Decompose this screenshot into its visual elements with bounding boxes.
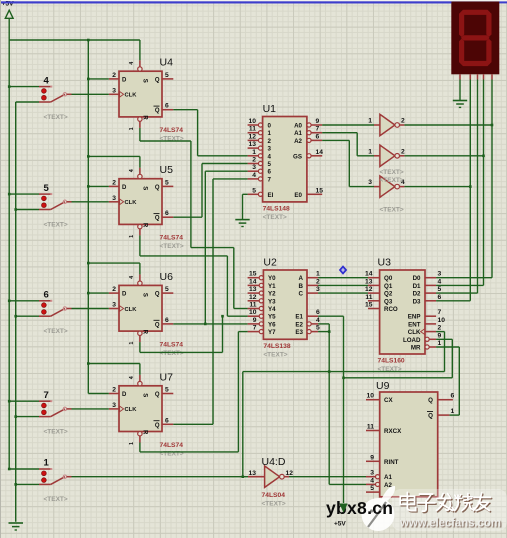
svg-text:A1: A1 — [384, 474, 392, 481]
svg-text:6: 6 — [316, 309, 320, 316]
switch 7 lever — [51, 409, 65, 417]
U7 pin Q-bar stub (pin 6) — [162, 423, 173, 425]
svg-text:5: 5 — [370, 485, 374, 492]
U9 CX pin 10 — [366, 399, 380, 401]
switch 5 bottom contact wire — [16, 209, 39, 211]
svg-text:14: 14 — [249, 278, 257, 285]
switch 1 common wire to output — [67, 476, 72, 478]
7-segment display body — [451, 2, 499, 75]
svg-text:<TEXT>: <TEXT> — [380, 207, 404, 214]
svg-text:U4:D: U4:D — [262, 456, 286, 468]
svg-text:<TEXT>: <TEXT> — [44, 221, 68, 228]
U7 set pin bubble and stub (pin 4) — [138, 381, 142, 385]
svg-text:6: 6 — [165, 103, 169, 110]
U2 E2 pin 4 — [307, 322, 311, 326]
svg-text:74LS160: 74LS160 — [378, 358, 405, 365]
wire U4 S to +5V rail — [139, 40, 141, 60]
U3 ENT pin 10 — [425, 323, 436, 325]
svg-text:7: 7 — [44, 390, 49, 401]
svg-text:U7: U7 — [160, 371, 174, 383]
svg-text:Y5: Y5 — [268, 314, 276, 321]
power symbol +5V bottom arrow — [340, 504, 347, 512]
svg-text:5: 5 — [44, 183, 50, 194]
svg-text:6: 6 — [165, 210, 169, 217]
U9 A1 pin 3 — [376, 475, 380, 479]
svg-text:11: 11 — [365, 294, 372, 301]
svg-text:E2: E2 — [295, 321, 303, 328]
switch 1 bottom contact wire — [16, 483, 39, 485]
switch 1 lever — [51, 477, 65, 485]
svg-text:10: 10 — [249, 118, 257, 125]
svg-text:U3: U3 — [378, 257, 392, 269]
svg-text:1: 1 — [129, 442, 135, 445]
svg-text:1: 1 — [438, 340, 442, 347]
svg-text:CLK: CLK — [125, 200, 138, 206]
svg-text:D0: D0 — [413, 275, 421, 282]
svg-text:R: R — [142, 430, 148, 435]
svg-text:R: R — [142, 223, 148, 228]
wire U1 A1 to inverter2 — [322, 132, 357, 134]
svg-text:5: 5 — [438, 286, 442, 293]
svg-text:6: 6 — [44, 290, 49, 301]
svg-text:A1: A1 — [294, 130, 302, 137]
wire display pin2 / inverter3 / U3 D3 net — [469, 80, 471, 301]
switch 5 lever — [51, 202, 65, 210]
U1 input pin 1 (4) — [258, 154, 262, 158]
svg-text:6: 6 — [451, 393, 455, 400]
svg-text:2: 2 — [112, 387, 116, 394]
U5 set pin bubble and stub (pin 4) — [138, 174, 142, 178]
svg-text:15: 15 — [365, 302, 373, 309]
svg-text:<TEXT>: <TEXT> — [160, 350, 184, 357]
svg-text:D: D — [122, 185, 127, 191]
svg-text:D3: D3 — [413, 298, 421, 305]
svg-text:D2: D2 — [413, 291, 421, 298]
svg-text:2: 2 — [401, 118, 405, 125]
svg-text:74LS148: 74LS148 — [263, 206, 290, 213]
U2 E1 pin 6 — [307, 315, 318, 317]
U1 input pin 13 (3) — [258, 146, 262, 150]
svg-text:13: 13 — [249, 141, 257, 148]
svg-text:10: 10 — [367, 393, 375, 400]
wire U4 Q-bar to U1 pin 1 — [173, 109, 197, 111]
wire U2 Y6 to U6 reset — [139, 342, 141, 352]
svg-text:U9: U9 — [376, 380, 390, 392]
svg-text:S: S — [142, 186, 148, 190]
wire U3 CLK net to switch 1 net — [436, 331, 444, 333]
svg-text:7: 7 — [253, 325, 257, 332]
U2 input C pin 3 — [307, 292, 318, 294]
wire D bus tap to U4 D — [88, 78, 109, 80]
svg-text:LOAD: LOAD — [403, 337, 421, 344]
U2 output Y4 pin 11 — [259, 306, 263, 310]
wire D-input bus vertical x88 — [87, 40, 89, 394]
svg-text:D: D — [122, 392, 127, 398]
U9 Q pin 6 — [438, 399, 453, 401]
svg-text:Q3: Q3 — [384, 298, 393, 305]
switch 5 contact points — [42, 196, 47, 201]
svg-text:U1: U1 — [263, 103, 277, 115]
svg-text:9: 9 — [370, 454, 374, 461]
U6 set pin bubble and stub (pin 4) — [138, 281, 142, 285]
U7 pin D stub (pin 2) — [109, 393, 119, 395]
U4 set pin bubble and stub (pin 4) — [138, 67, 142, 71]
svg-text:CLK: CLK — [125, 307, 138, 313]
U4 pin Q stub (pin 5) — [162, 78, 173, 80]
svg-text:<TEXT>: <TEXT> — [263, 214, 287, 221]
svg-text:CLK: CLK — [408, 329, 421, 336]
svg-text:10: 10 — [438, 317, 446, 324]
svg-text:6: 6 — [316, 133, 320, 140]
svg-text:13: 13 — [249, 470, 257, 477]
inverter gate 1 (segment driver) — [380, 114, 395, 135]
svg-text:4: 4 — [129, 275, 135, 279]
svg-text:ybx8.cn: ybx8.cn — [326, 498, 393, 518]
U3 Q1 pin 13 — [368, 284, 380, 286]
inverter gate 3 (segment driver) — [380, 176, 395, 197]
svg-text:4: 4 — [316, 317, 320, 324]
svg-text:U2: U2 — [263, 257, 277, 269]
svg-text:4: 4 — [129, 61, 135, 65]
svg-text:2: 2 — [112, 179, 116, 186]
svg-text:6: 6 — [268, 169, 272, 176]
U2 output Y1 pin 14 — [259, 283, 263, 287]
blue line over display sides — [0, 1, 451, 3]
svg-text:5: 5 — [165, 72, 169, 79]
svg-text:<TEXT>: <TEXT> — [44, 114, 68, 121]
wire D bus tap to U5 D — [88, 185, 109, 187]
wire U3 MR to U9 Q-bar — [436, 346, 459, 348]
svg-text:9: 9 — [438, 332, 442, 339]
svg-text:3: 3 — [112, 195, 116, 202]
svg-text:CLK: CLK — [125, 93, 138, 99]
svg-text:1: 1 — [268, 130, 272, 137]
monostable U9 body — [380, 392, 438, 497]
U3 CLK pin 2 — [425, 331, 436, 333]
U2 input B pin 2 — [307, 284, 318, 286]
U7 pin CLK stub (pin 3) — [109, 408, 119, 410]
svg-text:10: 10 — [249, 309, 257, 316]
U7 pin Q stub (pin 5) — [162, 393, 173, 395]
wire D bus tap to U6 D — [88, 292, 109, 294]
svg-text:Q: Q — [428, 397, 433, 404]
svg-text:4: 4 — [252, 172, 256, 179]
wire U4:D output to U9 A1 — [289, 476, 366, 478]
wire U6 Q-bar to U1 pin 3 and U2 Y6 — [173, 323, 247, 325]
svg-text:Y4: Y4 — [268, 306, 276, 313]
switch 7 contact points — [42, 403, 47, 408]
wire U7 Q-bar to U1 pin 4 — [173, 423, 213, 425]
U3 D0 pin 3 — [425, 277, 436, 279]
U3 RCO pin 15 — [368, 308, 380, 310]
svg-text:ENP: ENP — [408, 314, 421, 321]
svg-text:Q: Q — [155, 423, 160, 429]
svg-text:Q: Q — [428, 413, 433, 420]
svg-text:MR: MR — [411, 345, 421, 352]
svg-text:RINT: RINT — [384, 459, 399, 466]
svg-text:6: 6 — [165, 417, 169, 424]
svg-text:E0: E0 — [294, 192, 302, 199]
switch 5 common wire to output — [67, 201, 72, 203]
inverter U4:D 74LS04 — [265, 466, 280, 487]
svg-text:1: 1 — [129, 235, 135, 238]
U5 pin Q stub (pin 5) — [162, 185, 173, 187]
svg-text:CX: CX — [384, 397, 393, 404]
switch 6 common wire to output — [67, 308, 72, 310]
wire switch to U4 CLK — [72, 93, 109, 95]
svg-text:3: 3 — [316, 286, 320, 293]
U1 input pin 10 (0) — [258, 123, 262, 127]
svg-text:4: 4 — [370, 477, 374, 484]
U5 pin Q-bar stub (pin 6) — [162, 216, 173, 218]
svg-text:3: 3 — [368, 179, 372, 186]
svg-text:1: 1 — [368, 118, 372, 125]
svg-text:9: 9 — [316, 118, 320, 125]
svg-text:74LS74: 74LS74 — [160, 127, 184, 134]
svg-text:3: 3 — [370, 470, 374, 477]
blue title bar line — [0, 1, 507, 3]
svg-text:Q2: Q2 — [384, 291, 393, 298]
svg-text:Y6: Y6 — [268, 321, 276, 328]
wire U1 A2 to inverter3 — [322, 139, 349, 141]
switch 4 bottom contact wire — [16, 101, 39, 103]
svg-text:Q: Q — [155, 77, 160, 83]
svg-text:<TEXT>: <TEXT> — [262, 501, 286, 508]
svg-text:11: 11 — [249, 302, 256, 309]
U2 input A pin 1 — [307, 277, 318, 279]
U9 B pin 5 — [366, 491, 380, 493]
svg-text:Q: Q — [155, 292, 160, 298]
svg-text:CLK: CLK — [125, 407, 138, 413]
U1 output A1 pin 7 — [307, 131, 311, 135]
svg-text:12: 12 — [286, 470, 294, 477]
wire display pin4 / inverter2 / U3 D1 net — [483, 80, 485, 286]
svg-text:A0: A0 — [294, 123, 302, 130]
wire D bus tap to U7 D — [88, 393, 109, 395]
D flip-flop U7 74LS74 body — [119, 386, 162, 432]
svg-text:4: 4 — [129, 168, 135, 172]
svg-text:1: 1 — [252, 149, 256, 156]
wire U3 LOAD net to +5V — [436, 338, 452, 340]
U6 pin CLK stub (pin 3) — [109, 308, 119, 310]
svg-text:C: C — [299, 291, 304, 298]
U6 pin D stub (pin 2) — [109, 292, 119, 294]
switch 4 top contact wire — [9, 86, 39, 88]
U9 Q-bar pin 1 — [438, 414, 450, 416]
switch 6 bottom contact wire — [16, 315, 39, 317]
svg-text:<TEXT>: <TEXT> — [380, 177, 404, 184]
wire switch1 net vertical to U9 A2 — [329, 483, 366, 485]
svg-text:3: 3 — [438, 271, 442, 278]
D flip-flop U6 74LS74 body — [119, 285, 162, 331]
U3 ENP pin 7 — [425, 315, 436, 317]
U3 D2 pin 5 — [425, 292, 436, 294]
svg-text:7: 7 — [316, 126, 320, 133]
svg-text:Y1: Y1 — [268, 283, 276, 290]
switch 7 common wire to output — [67, 408, 72, 410]
U6 pin Q-bar stub (pin 6) — [162, 323, 173, 325]
svg-text:5: 5 — [316, 325, 320, 332]
U6 pin Q stub (pin 5) — [162, 292, 173, 294]
U1 input pin 12 (2) — [258, 138, 262, 142]
svg-text:EI: EI — [268, 192, 274, 199]
U3 Q3 pin 11 — [368, 300, 380, 302]
wire display pin5 / inverter1 / U3 D0 net — [491, 80, 493, 278]
wire U1 EI to ground — [243, 193, 248, 195]
svg-text:<TEXT>: <TEXT> — [44, 328, 68, 335]
inverter gate 2 (segment driver) — [380, 145, 395, 166]
display pin 2 stub — [469, 74, 471, 79]
U4 pin Q-bar stub (pin 6) — [162, 109, 173, 111]
svg-text:E3: E3 — [295, 329, 303, 336]
svg-text:12: 12 — [249, 133, 257, 140]
svg-text:2: 2 — [268, 138, 272, 145]
svg-text:S: S — [142, 393, 148, 397]
wire D bus tap to U5 S — [88, 155, 140, 157]
display pin 1 stub — [459, 74, 461, 79]
svg-text:15: 15 — [249, 271, 257, 278]
svg-text:R: R — [142, 330, 148, 335]
U5 pin CLK stub (pin 3) — [109, 201, 119, 203]
switch 1 top contact wire — [9, 468, 39, 470]
wire +5V horizontal rail to U4 set — [9, 39, 140, 41]
7-segment display segments — [461, 10, 491, 15]
switch 4 contact points — [42, 89, 47, 94]
svg-text:1: 1 — [44, 458, 50, 469]
svg-text:Q: Q — [155, 108, 160, 114]
U9 RINT pin 9 — [366, 460, 380, 462]
wire +5V arrow to rail — [8, 18, 10, 40]
svg-text:6: 6 — [438, 294, 442, 301]
U2 output Y2 pin 13 — [259, 291, 263, 295]
svg-text:Q: Q — [155, 216, 160, 222]
svg-text:S: S — [142, 79, 148, 83]
ground symbol below U1 EI — [235, 219, 249, 221]
svg-text:74LS138: 74LS138 — [263, 343, 290, 350]
U1 EI pin 5 — [258, 192, 262, 196]
svg-text:Y7: Y7 — [268, 329, 276, 336]
svg-text:2: 2 — [112, 72, 116, 79]
U5 pin D stub (pin 2) — [109, 185, 119, 187]
watermark logo leaf stroke — [368, 502, 386, 527]
ground symbol under display — [453, 100, 467, 102]
U1 input pin 3 (6) — [258, 169, 262, 173]
U4 pin D stub (pin 2) — [109, 78, 119, 80]
decoder U2 74LS138 body — [263, 270, 307, 339]
watermark elecfans chinese text (drawn strokes) — [408, 494, 410, 509]
svg-text:74LS74: 74LS74 — [160, 341, 184, 348]
U3 Q0 pin 14 — [368, 277, 380, 279]
U1 input pin 4 (7) — [258, 177, 262, 181]
svg-text:1: 1 — [129, 127, 135, 130]
svg-text:15: 15 — [316, 187, 324, 194]
svg-text:<TEXT>: <TEXT> — [44, 428, 68, 435]
U3 LOAD pin 9 — [425, 337, 429, 341]
svg-text:9: 9 — [253, 317, 257, 324]
svg-text:74LS74: 74LS74 — [160, 235, 184, 242]
U3 CLK edge triangle — [421, 329, 425, 335]
svg-text:5: 5 — [268, 161, 272, 168]
wire switch to U5 CLK — [72, 201, 109, 203]
wire switch 1 to U4:D inverter input — [72, 476, 249, 478]
svg-text:E1: E1 — [295, 314, 303, 321]
svg-text:11: 11 — [367, 424, 374, 431]
svg-text:+5V: +5V — [334, 521, 346, 528]
U1 input pin 2 (5) — [258, 161, 262, 165]
U7 reset pin bubble and stub (pin 1) — [138, 432, 142, 436]
wire U2 E2 E3 to switch 1 net vertical — [318, 323, 329, 325]
svg-text:Q: Q — [155, 185, 160, 191]
svg-text:1: 1 — [451, 408, 455, 415]
window left border — [0, 0, 1, 538]
wire U2 A to U3 Q0 — [318, 277, 368, 279]
encoder U1 74LS148 body — [263, 117, 307, 202]
wire switch to U7 CLK — [72, 408, 109, 410]
switch 5 top contact wire — [9, 193, 39, 195]
svg-text:74LS74: 74LS74 — [160, 442, 184, 449]
wire display pin3 / U3 D2 net — [477, 80, 479, 294]
svg-text:RCO: RCO — [384, 306, 398, 313]
wire U2 Y7 to U7 reset — [139, 443, 141, 452]
switch 4 lever — [51, 94, 65, 102]
svg-text:14: 14 — [365, 271, 373, 278]
svg-text:2: 2 — [316, 278, 320, 285]
svg-text:5: 5 — [165, 387, 169, 394]
watermark translucent backdrop — [392, 489, 507, 531]
wire U2 Y4 to U4 reset — [139, 128, 141, 141]
svg-text:5: 5 — [165, 179, 169, 186]
svg-text:Y2: Y2 — [268, 291, 276, 298]
U2 output Y0 pin 15 — [259, 276, 263, 280]
switch 7 top contact wire — [9, 400, 39, 402]
svg-text:0: 0 — [268, 123, 272, 130]
U1 input pin 11 (1) — [258, 131, 262, 135]
svg-text:1: 1 — [129, 342, 135, 345]
svg-text:D: D — [122, 292, 127, 298]
switch 6 contact points — [42, 303, 47, 308]
svg-text:ENT: ENT — [408, 321, 421, 328]
wire U2 Y5 to U5 reset — [139, 235, 141, 256]
switch 4 common wire to output — [67, 93, 72, 95]
svg-text:3: 3 — [112, 302, 116, 309]
wire D bus tap to U6 S — [88, 262, 140, 264]
svg-text:Y3: Y3 — [268, 298, 276, 305]
wire switch to U6 CLK — [72, 308, 109, 310]
svg-text:Q1: Q1 — [384, 283, 393, 290]
U1 output A0 pin 9 — [307, 123, 311, 127]
U9 RXCX pin 11 — [366, 430, 380, 432]
svg-text:6: 6 — [165, 317, 169, 324]
svg-text:3: 3 — [112, 87, 116, 94]
U2 output Y6 pin 9 — [259, 322, 263, 326]
svg-text:12: 12 — [249, 294, 257, 301]
svg-text:<TEXT>: <TEXT> — [263, 352, 287, 359]
svg-text:RXCX: RXCX — [384, 428, 402, 435]
svg-text:Q: Q — [155, 322, 160, 328]
svg-text:5: 5 — [165, 286, 169, 293]
power symbol +5V arrow — [5, 10, 13, 18]
U2 E3 pin 5 — [307, 330, 311, 334]
ground symbol bottom-left — [9, 522, 24, 524]
svg-text:S: S — [142, 293, 148, 297]
switch 1 contact points — [42, 471, 47, 476]
svg-text:A: A — [299, 275, 304, 282]
origin marker blue diamond — [339, 265, 347, 275]
svg-text:3: 3 — [252, 164, 256, 171]
switch 6 lever — [51, 309, 65, 317]
svg-text:Q0: Q0 — [384, 275, 393, 282]
U9 A2 pin 4 — [376, 482, 380, 486]
